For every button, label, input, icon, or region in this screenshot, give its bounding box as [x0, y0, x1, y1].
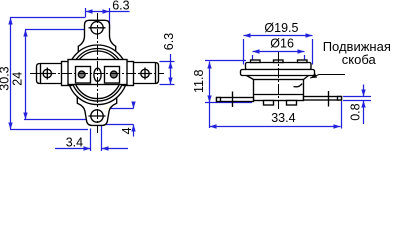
svg-text:Ø16: Ø16: [270, 36, 294, 50]
horizontal centreline: [30, 73, 164, 75]
shoulder right: [304, 76, 309, 80]
dim 6.3 right: [160, 54, 175, 85]
right terminal centre tick: [328, 91, 330, 107]
rivet window left: [76, 67, 91, 84]
cap top tab left: [251, 60, 261, 63]
outer flange circle: [68, 45, 128, 105]
dim 3.4 bottom: [55, 125, 128, 152]
dim 30.3 left: [8, 18, 88, 130]
left terminal: [217, 98, 254, 102]
left ear ledge: [62, 62, 73, 86]
right ear ledge: [123, 62, 134, 86]
bracket hook detail inside body: [294, 84, 303, 87]
dim diameter 19.5: [244, 33, 313, 64]
svg-text:6.3: 6.3: [112, 0, 129, 12]
left terminal fold line: [40, 64, 42, 84]
rivet left: [78, 71, 85, 78]
dim 33.4: [210, 101, 342, 129]
side view centreline: [278, 52, 280, 109]
dim 4 bottom-right: [99, 102, 136, 137]
svg-text:11.8: 11.8: [192, 70, 206, 93]
top tab hole crosshair: [89, 27, 106, 29]
svg-text:3.4: 3.4: [66, 136, 83, 150]
dim 24 left: [23, 30, 90, 120]
svg-text:24: 24: [10, 72, 24, 86]
foot left: [264, 101, 274, 106]
vertical centreline side view: [278, 52, 280, 109]
svg-text:скоба: скоба: [342, 52, 377, 67]
movable bracket cap: [246, 63, 312, 70]
left terminal strip: [37, 64, 71, 84]
left terminal end detail: [217, 98, 221, 102]
bottom mounting tab (behind body): [77, 96, 116, 125]
svg-text:Ø19.5: Ø19.5: [264, 21, 298, 35]
svg-text:4: 4: [120, 127, 134, 134]
flange line across body: [254, 94, 304, 96]
dim diameter 16: [253, 49, 305, 61]
right terminal hole: [141, 69, 149, 77]
cap top tab right: [298, 60, 308, 63]
inner rim circle 1: [71, 49, 124, 102]
top mounting tab (behind body): [78, 20, 115, 55]
rivet right: [110, 71, 117, 78]
inner rim circle 2: [74, 51, 122, 99]
cap top tab centre: [274, 60, 284, 63]
left terminal centre tick: [232, 92, 234, 108]
bracket midsection: [68, 60, 127, 85]
svg-text:0.8: 0.8: [349, 103, 363, 120]
front view centrelines: [30, 13, 164, 133]
cap brim: [241, 70, 315, 76]
rivet window right: [105, 67, 120, 84]
top tab hole: [91, 22, 103, 34]
right terminal end detail: [338, 97, 342, 101]
foot right: [287, 101, 297, 106]
ceramic body: [254, 80, 304, 101]
right terminal strip: [125, 63, 159, 84]
right terminal: [304, 97, 342, 101]
svg-text:33.4: 33.4: [271, 111, 295, 125]
bottom tab hole crosshair: [89, 115, 106, 117]
dim 11.8: [205, 61, 252, 129]
shoulder left: [247, 76, 254, 80]
dim 0.8: [343, 85, 371, 125]
leader line to movable bracket: [310, 75, 345, 79]
right terminal fold line: [155, 63, 157, 84]
left terminal hole: [43, 69, 51, 77]
bottom tab hole: [91, 110, 103, 122]
svg-text:6.3: 6.3: [162, 33, 176, 50]
centre post oval: [94, 68, 101, 81]
vertical centreline: [97, 13, 99, 133]
dim 6.3 top: [86, 8, 130, 30]
